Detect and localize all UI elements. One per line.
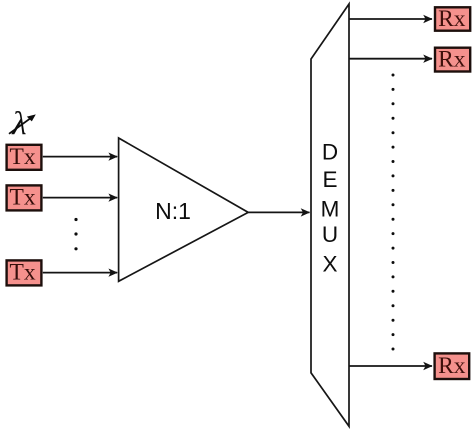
svg-text:E: E xyxy=(322,167,337,192)
svg-text:X: X xyxy=(322,252,337,277)
svg-text:Tx: Tx xyxy=(10,144,36,170)
svg-text:Tx: Tx xyxy=(10,260,36,286)
wire N:1 mux to DEMUX xyxy=(248,211,309,213)
svg-text:D: D xyxy=(322,140,338,165)
receiver Rx1 xyxy=(435,6,470,32)
node lambda (wavelength symbol with arrow) xyxy=(9,106,36,142)
receiver Rx3 xyxy=(435,353,470,379)
transmitter Tx3 xyxy=(7,260,42,286)
transmitter Tx2 xyxy=(7,185,42,211)
wire Tx3 to N:1 mux xyxy=(43,272,117,274)
demultiplexer DEMUX xyxy=(311,4,349,426)
wire DEMUX to Rx1 xyxy=(349,18,432,20)
transmitter Tx1 xyxy=(7,144,42,170)
svg-text:Rx: Rx xyxy=(438,6,466,32)
svg-text:N:1: N:1 xyxy=(155,198,191,224)
svg-text:M: M xyxy=(321,197,340,222)
svg-text:Rx: Rx xyxy=(438,353,466,379)
wire Tx1 to N:1 mux xyxy=(43,156,117,158)
wire Tx2 to N:1 mux xyxy=(43,197,117,199)
svg-text:λ: λ xyxy=(11,106,26,142)
multiplexer N:1 (triangle) xyxy=(119,138,249,281)
wire DEMUX to Rx2 xyxy=(349,58,432,60)
svg-text:U: U xyxy=(322,222,338,247)
svg-text:Rx: Rx xyxy=(438,46,466,72)
receiver Rx2 xyxy=(435,46,470,72)
svg-text:Tx: Tx xyxy=(10,185,36,211)
wire DEMUX to Rx3 xyxy=(349,365,432,367)
ellipsis dots between Tx2 and Tx3 xyxy=(74,218,77,251)
ellipsis dotted line between Rx2 and Rx3 xyxy=(392,74,395,351)
